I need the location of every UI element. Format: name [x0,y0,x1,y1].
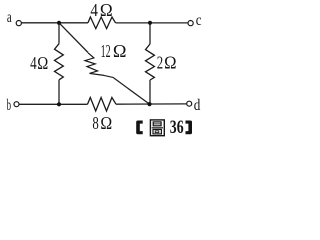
node b terminal circle [14,102,19,107]
wire: diagonal lead-out horizontal jog [104,75,113,77]
caption CJK character tu (diagram) drawn as strokes [150,120,164,136]
svg-text:c: c [196,12,202,29]
svg-text:Ω: Ω [100,113,112,133]
junction dot top-left [57,21,61,25]
caption opening lenticular bracket [136,121,143,135]
svg-text:Ω: Ω [113,41,127,61]
svg-text:a: a [7,9,12,26]
svg-text:Ω: Ω [100,0,113,20]
node d terminal circle [187,101,192,106]
resistor 4ohm left zigzag [55,44,64,80]
svg-text:Ω: Ω [164,52,176,72]
wire: diagonal upper lead from top-left junction [59,23,88,53]
junction dot bottom-right [147,102,151,106]
resistor 8ohm bottom zigzag [88,98,117,112]
wire: left branch lower lead [58,80,60,105]
wire: diagonal lower lead to bottom-right junction [113,77,150,104]
wire: right branch lower lead [149,80,151,104]
resistor 4ohm top zigzag [88,17,116,29]
svg-text:d: d [194,97,201,114]
wire: left branch upper lead [58,23,60,44]
caption closing lenticular bracket [186,121,193,135]
svg-text:36: 36 [170,117,184,138]
resistor 2ohm right zigzag [146,44,155,80]
svg-text:Ω: Ω [37,53,48,73]
svg-text:4: 4 [30,53,37,73]
wire: bottom resistor to node d [116,103,187,105]
node c terminal circle [188,21,193,26]
resistor 12ohm diagonal zigzag [85,53,104,76]
wire: top resistor to node c [116,22,189,24]
node a terminal circle [16,21,21,26]
svg-text:4: 4 [90,0,98,20]
svg-text:8: 8 [92,113,98,133]
wire: bottom from b across to bottom resistor [19,103,88,105]
junction dot top-right [148,21,152,25]
wire: a to left junction and on to top resistor [21,22,88,24]
junction dot bottom-left [57,102,61,106]
wire: right branch upper lead [149,23,151,44]
svg-text:12: 12 [101,41,111,61]
svg-text:2: 2 [157,52,163,72]
svg-text:b: b [7,97,11,114]
